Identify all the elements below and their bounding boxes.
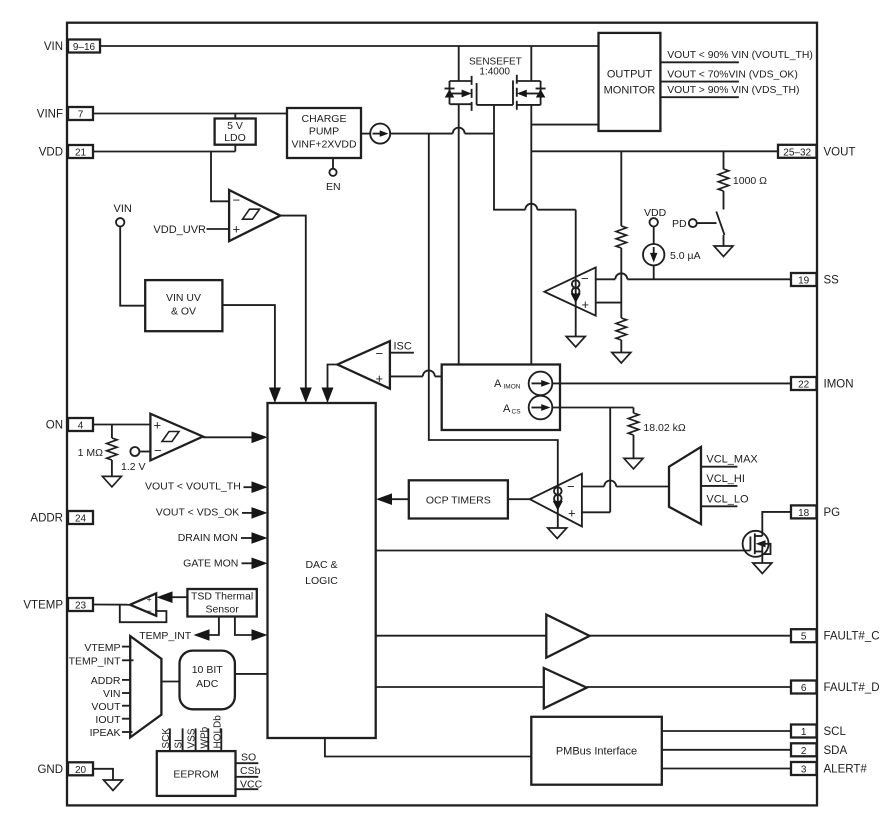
transistor sense FET left [449,81,451,104]
pin SS 19 [791,273,817,286]
wire VOUT line [531,150,778,152]
wire PD actuator [697,222,717,224]
pin VSS [195,728,197,751]
svg-text:VIN: VIN [103,688,121,700]
buffer FAULT#_D [376,686,544,688]
mux VCL select [669,447,701,524]
wire mux input TEMP_INT [122,659,134,661]
pin GND 20 [68,762,93,775]
svg-text:VSS: VSS [187,728,198,748]
terminal EN circle [329,169,336,176]
wire LDO bottom tap [234,145,236,152]
wire mux input ADDR [122,679,130,681]
svg-text:IOUT: IOUT [95,714,121,726]
wire ISC output to DAC [328,365,338,389]
svg-text:6: 6 [801,683,807,694]
block DAC and LOGIC [268,403,376,738]
arrow UVR into DAC [300,388,312,404]
svg-text:ADDR: ADDR [91,675,121,687]
svg-text:1 MΩ: 1 MΩ [78,447,104,459]
wire OCP amp output to OCP timers [508,498,530,500]
svg-text:+: + [568,506,576,521]
wire hop over divider [615,273,627,279]
svg-text:SO: SO [241,752,256,764]
wire VDD line [93,151,235,153]
svg-text:5 V: 5 V [227,120,243,132]
transistor main FET right [540,81,542,105]
wire ADC to DAC [235,673,268,675]
wire divider from VOUT [620,151,622,226]
wire mux input IPEAK [122,731,133,733]
ground below divider [612,353,631,364]
wire gate drive with hop [390,133,494,135]
wire ALERT# [662,768,791,770]
svg-text:VINF: VINF [37,109,63,121]
svg-text:VTEMP: VTEMP [23,600,63,612]
wire charge pump to current source [361,133,370,135]
block OUTPUT MONITOR [599,33,661,131]
svg-text:21: 21 [75,148,87,159]
svg-text:SCL: SCL [824,726,847,738]
current source glyph inside SS amp [572,280,580,288]
svg-text:EN: EN [326,181,341,193]
svg-text:CHARGE: CHARGE [302,113,347,125]
wire PG gate from DAC [376,550,750,552]
svg-text:IMON: IMON [824,379,854,391]
wire VTEMP pin to comparator [93,604,130,606]
svg-text:VCC: VCC [240,778,263,790]
pin FAULT#_C 5 [791,629,817,642]
wire mux to ADC [161,681,179,683]
svg-text:22: 22 [798,380,810,391]
svg-text:VDD_UVR: VDD_UVR [153,224,206,236]
svg-text:1.2 V: 1.2 V [121,461,146,473]
pin ADDR 24 [68,511,93,524]
wire tap to 1M resistor [111,425,113,439]
svg-text:SDA: SDA [824,745,848,757]
wire VIN stub to UV OV block [120,227,145,306]
pin VTEMP 23 [68,598,93,611]
svg-text:VIN: VIN [44,41,63,53]
wire hop over source drop [525,204,537,210]
wire ACS output [552,407,633,409]
source 1.2V [130,447,139,456]
comparator ON [150,414,203,461]
svg-text:VTEMP: VTEMP [84,642,120,654]
svg-text:EEPROM: EEPROM [173,769,219,781]
wire right FET source down to A block [530,105,532,365]
ground below PD switch [714,246,733,257]
svg-text:GATE MON: GATE MON [183,558,238,570]
current source glyph inside OCP amp [554,487,562,495]
svg-text:9–16: 9–16 [73,42,96,53]
svg-text:PD: PD [672,218,687,230]
wire ON comparator output [203,436,253,438]
comparator ISC [337,341,390,389]
svg-text:WPb: WPb [199,726,210,748]
svg-text:VINF+2XVDD: VINF+2XVDD [291,139,356,151]
wire IMON output [552,382,791,384]
svg-text:LOGIC: LOGIC [305,575,338,587]
wire UVR comparator output to DAC [280,216,306,389]
terminal VDD circle [650,218,658,226]
transistor PG open drain FET [743,531,769,557]
wire gate branch to OCP amp [429,134,558,528]
pin VINF 7 [68,107,93,120]
wire TSD to DAC arrow [235,617,253,636]
svg-text:+: + [376,371,384,386]
svg-text:−: − [147,606,152,616]
wire monitor output VDS_OK [660,81,739,83]
pin SI [182,728,184,751]
svg-text:CSb: CSb [240,765,261,777]
wire ISC reference stub [390,352,414,354]
svg-text:& OV: & OV [171,306,196,318]
resistor divider upper [616,226,626,248]
svg-text:+: + [582,297,590,312]
wire gate bus down and right with hop [494,105,576,337]
pin CSb [236,776,259,778]
pin HOLDb [220,728,222,751]
wire VDD to current source [653,227,655,245]
svg-text:PUMP: PUMP [309,126,339,138]
arrow ISC into DAC [322,388,334,404]
svg-text:5.0 µA: 5.0 µA [670,250,701,262]
pin SDA 2 [791,743,817,756]
ground below 18.02k [624,458,643,469]
svg-text:CS: CS [512,409,522,416]
svg-text:MONITOR: MONITOR [604,85,656,97]
svg-text:SI: SI [174,739,185,748]
terminal VIN circle [116,218,124,226]
wire monitor output VOUTL_TH [660,61,739,63]
svg-text:5: 5 [801,632,807,643]
svg-text:PG: PG [824,507,841,519]
ground GND pin [104,780,123,791]
svg-text:VDD: VDD [644,207,667,219]
terminal PD circle [689,219,697,227]
current source 5.0uA [643,244,664,265]
arrow TSD to VTEMP comparator [157,591,173,603]
block OCP TIMERS [409,480,508,518]
amp A CS [529,396,553,420]
svg-text:−: − [154,443,162,458]
wire VCL_HI stub [701,485,737,487]
svg-text:−: − [376,346,384,361]
wire VDD to UVR comparator minus [211,152,229,202]
wire EN stub [332,158,334,169]
svg-text:IMON: IMON [504,384,521,391]
wire PG pin to FET drain [762,512,791,536]
wire mux input VIN [122,692,130,694]
svg-text:24: 24 [75,514,87,525]
wire VINF tap to LDO top [234,114,236,119]
switch PD blade [716,212,724,236]
svg-text:ALERT#: ALERT# [824,764,868,776]
svg-text:DAC &: DAC & [305,559,337,571]
wire PG source to ground [761,554,763,563]
ground below PG FET [753,563,772,574]
svg-text:OCP TIMERS: OCP TIMERS [426,495,491,507]
svg-text:2: 2 [801,746,807,757]
pin IMON 22 [791,377,817,390]
svg-text:3: 3 [801,765,807,776]
svg-text:VOUT < VOUTL_TH: VOUT < VOUTL_TH [145,481,241,493]
svg-text:ON: ON [46,420,63,432]
svg-text:VCL_HI: VCL_HI [706,473,745,485]
mux ADC input select [130,636,161,737]
pin VDD 21 [68,145,93,158]
pin SCL 1 [791,725,817,738]
resistor divider lower [616,318,626,340]
wire VINF to charge pump [93,113,287,115]
svg-text:+: + [154,418,162,433]
block PMBus Interface [531,717,662,785]
ground below OCP amp [548,528,567,539]
svg-text:HOLDb: HOLDb [212,715,223,749]
svg-text:IPEAK: IPEAK [90,727,121,739]
wire ACS to OCP plus [609,408,611,513]
svg-text:LDO: LDO [224,132,246,144]
svg-text:SS: SS [824,275,840,287]
svg-text:TSD Thermal: TSD Thermal [191,591,253,603]
svg-text:DRAIN MON: DRAIN MON [178,532,238,544]
pin SCK [169,728,171,751]
svg-text:19: 19 [798,276,810,287]
svg-text:+: + [147,595,152,605]
svg-text:A: A [503,403,511,415]
svg-text:OUTPUT: OUTPUT [607,69,653,81]
svg-text:ADC: ADC [196,678,219,690]
pin VCC [236,788,259,790]
svg-text:18.02 kΩ: 18.02 kΩ [643,422,685,434]
wire ON pin to comparator [93,424,150,426]
pin VOUT 25-32 [778,145,817,158]
svg-text:FAULT#_C: FAULT#_C [824,631,880,643]
wire VCL_LO stub [701,505,737,507]
wire SDA [662,749,791,751]
wire SS amp plus input [596,302,622,304]
wire VCL_MAX stub [701,466,737,468]
buffer FAULT#_C [376,635,546,637]
comparator VTEMP [130,593,156,615]
wire OCP plus input [582,511,610,513]
svg-text:20: 20 [75,765,87,776]
svg-text:18: 18 [798,508,810,519]
wire TSD to TEMP_INT arrow [210,617,219,636]
svg-text:PMBus Interface: PMBus Interface [556,746,637,758]
svg-text:7: 7 [78,110,84,121]
pin ALERT# 3 [791,762,817,775]
wire OCP minus input from VCL mux with hop [582,486,669,488]
block VIN UV OV [145,280,222,331]
wire VDD_UVR label stub [207,228,230,230]
block 5V LDO [215,119,256,145]
svg-text:23: 23 [75,601,87,612]
current source gate drive [370,124,390,144]
svg-text:VCL_MAX: VCL_MAX [706,454,758,466]
ground below 1M [102,476,121,487]
svg-text:VOUT: VOUT [824,146,856,158]
wire current source to SS line [653,265,655,279]
wire VTEMP feedback loop [120,605,167,623]
wire monitor output VDS_TH [660,96,739,98]
svg-text:1000 Ω: 1000 Ω [733,175,767,187]
svg-text:VOUT < 90% VIN (VOUTL_TH): VOUT < 90% VIN (VOUTL_TH) [667,50,813,61]
svg-text:VIN: VIN [114,203,132,215]
svg-text:GND: GND [37,764,63,776]
ground below SS amp [566,337,585,348]
svg-text:VOUT > 90% VIN (VDS_TH): VOUT > 90% VIN (VDS_TH) [667,85,799,96]
block A current sense amplifiers [442,365,560,431]
svg-text:1: 1 [801,727,807,738]
block TSD thermal sensor [187,589,256,617]
arrow UV OV into DAC [269,388,281,404]
resistor 1000 ohm [723,151,725,169]
wire GND pin [93,769,113,780]
svg-text:ADDR: ADDR [30,513,63,525]
svg-text:−: − [567,479,575,494]
block charge pump [287,108,361,158]
svg-text:VDD: VDD [39,147,63,159]
svg-text:VCL_LO: VCL_LO [706,493,749,505]
svg-text:FAULT#_D: FAULT#_D [824,682,880,694]
svg-text:VOUT: VOUT [91,701,121,713]
wire mux input IOUT [122,718,130,720]
wire UV OV output to DAC [222,305,275,388]
svg-text:25–32: 25–32 [783,147,811,158]
pin VIN 9-16 [68,40,100,53]
svg-text:TEMP_INT: TEMP_INT [69,656,122,668]
wire OCP timers to DAC arrow [391,498,409,500]
svg-text:ISC: ISC [394,341,412,353]
wire source to output monitor [531,124,598,126]
wire mux input VOUT [122,705,130,707]
svg-text:A: A [494,378,502,390]
wire left FET source down to A block [458,104,460,364]
wire hop over sense drop [453,128,465,134]
pin FAULT#_D 6 [791,681,817,694]
pin PG 18 [791,505,817,518]
svg-text:VIN UV: VIN UV [166,292,201,304]
wire gate cup [477,104,513,106]
wire VIN bus [100,45,599,47]
resistor 1 Mohm [107,438,117,460]
pin WPb [207,728,209,751]
svg-text:−: − [233,193,241,208]
pin ON 4 [68,418,93,431]
svg-text:Sensor: Sensor [205,604,239,616]
wire ISC plus input with hop [390,375,442,377]
comparator VDD_UVR [229,190,280,241]
svg-text:1:4000: 1:4000 [479,67,510,78]
wire DAC to PMBus [325,738,531,757]
svg-text:+: + [233,222,241,237]
svg-text:−: − [581,271,589,286]
svg-text:TEMP_INT: TEMP_INT [139,630,192,642]
wire left FET drain drop [458,46,460,81]
svg-text:SCK: SCK [161,728,172,749]
block 10 bit ADC [180,651,235,710]
wire SCL [662,730,791,732]
wire hop over ACS drop [604,481,616,487]
block EEPROM [157,751,236,796]
wire mux input VTEMP [122,646,132,648]
svg-text:VOUT < 70%VIN (VDS_OK): VOUT < 70%VIN (VDS_OK) [667,69,798,80]
op-amp OCP current limit amplifier [530,474,582,527]
svg-text:10 BIT: 10 BIT [192,664,224,676]
resistor 18.02k [633,408,635,414]
wire right FET drain drop [530,46,532,81]
pin SO [236,762,259,764]
amp A IMON [529,372,553,396]
op-amp SS gate amplifier [544,267,595,315]
svg-text:4: 4 [78,421,84,432]
svg-text:VOUT < VDS_OK: VOUT < VDS_OK [156,507,240,519]
wire SS line with hop [596,278,791,280]
